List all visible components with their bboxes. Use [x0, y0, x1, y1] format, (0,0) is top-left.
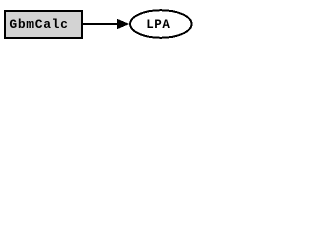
svg-text:LPA: LPA — [146, 18, 170, 32]
svg-text:GbmCalc: GbmCalc — [9, 17, 68, 32]
